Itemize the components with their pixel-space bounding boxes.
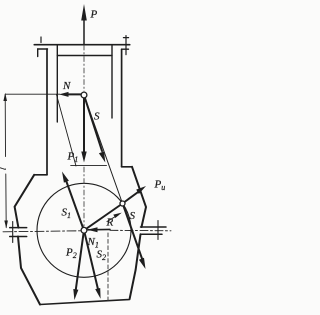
dashed drop from N1 tip (107, 233, 109, 301)
arrowhead N1 (87, 227, 97, 232)
R leader arrow (107, 215, 119, 222)
crank circle (37, 183, 131, 277)
force P1 (83, 98, 85, 153)
svg-text:P1: P1 (67, 151, 79, 165)
arrowhead S2 (95, 288, 100, 299)
dim extension line (5, 93, 60, 95)
head underside (57, 55, 112, 57)
right bearing boss (157, 221, 159, 240)
step right (122, 166, 132, 168)
bore wall left (56, 45, 58, 122)
force S lower (124, 206, 143, 260)
force S1 (66, 179, 84, 229)
piston pin (81, 92, 87, 98)
crankcase bottom (40, 300, 130, 305)
crankcase right wall (130, 167, 146, 299)
svg-text:N: N (62, 80, 71, 92)
arrowhead S1 (62, 172, 69, 183)
arrowhead P1 (81, 152, 86, 163)
crank pin (120, 201, 125, 206)
cylinder axis dashed mid (83, 167, 85, 226)
crank center (81, 227, 87, 233)
bore wall right (111, 45, 113, 118)
force P (83, 20, 85, 44)
arrowhead Pu (136, 186, 146, 194)
svg-text:N1: N1 (87, 236, 99, 250)
svg-text:S1: S1 (62, 207, 72, 221)
dimension line l (5, 95, 6, 228)
arrowhead R leader (113, 213, 122, 218)
arrowhead dim top (3, 93, 7, 101)
arrowhead N (59, 92, 69, 97)
stud tick left (40, 37, 42, 43)
force N1 (88, 228, 110, 230)
arrowhead S lower (139, 258, 146, 269)
arrowhead P2 (73, 289, 78, 300)
arrowhead P (81, 4, 87, 21)
crank centerline (3, 231, 81, 232)
head lower plate line (38, 48, 129, 50)
cylinder head flange (34, 44, 129, 46)
arrowhead S upper (99, 151, 105, 162)
svg-text:R: R (106, 217, 114, 229)
arrowhead dim bottom (4, 221, 8, 229)
svg-text:P2: P2 (65, 247, 77, 261)
crankcase left wall (15, 175, 40, 305)
svg-text:l: l (0, 166, 8, 170)
svg-text:S: S (130, 210, 136, 222)
left bearing boss (12, 222, 14, 243)
outer cylinder wall left (46, 49, 48, 175)
svg-text:P: P (90, 9, 98, 21)
force S upper (85, 98, 102, 151)
stud tick right (123, 36, 128, 55)
construction line N-tip to P1-tip (57, 95, 77, 166)
construction connector P1-S tips (71, 165, 107, 167)
step left (34, 174, 47, 176)
svg-text:S2: S2 (97, 249, 107, 263)
outer cylinder wall right (121, 49, 123, 167)
force Pu (125, 191, 140, 202)
head plate left lip (37, 49, 39, 57)
crank arm (84, 204, 123, 231)
svg-text:S: S (94, 111, 100, 123)
force N (66, 93, 82, 95)
connecting rod axis (84, 95, 123, 204)
force S2 (85, 233, 99, 291)
cylinder axis dashed upper (83, 45, 85, 91)
force P2 (76, 233, 84, 291)
svg-text:Pu: Pu (154, 179, 166, 193)
